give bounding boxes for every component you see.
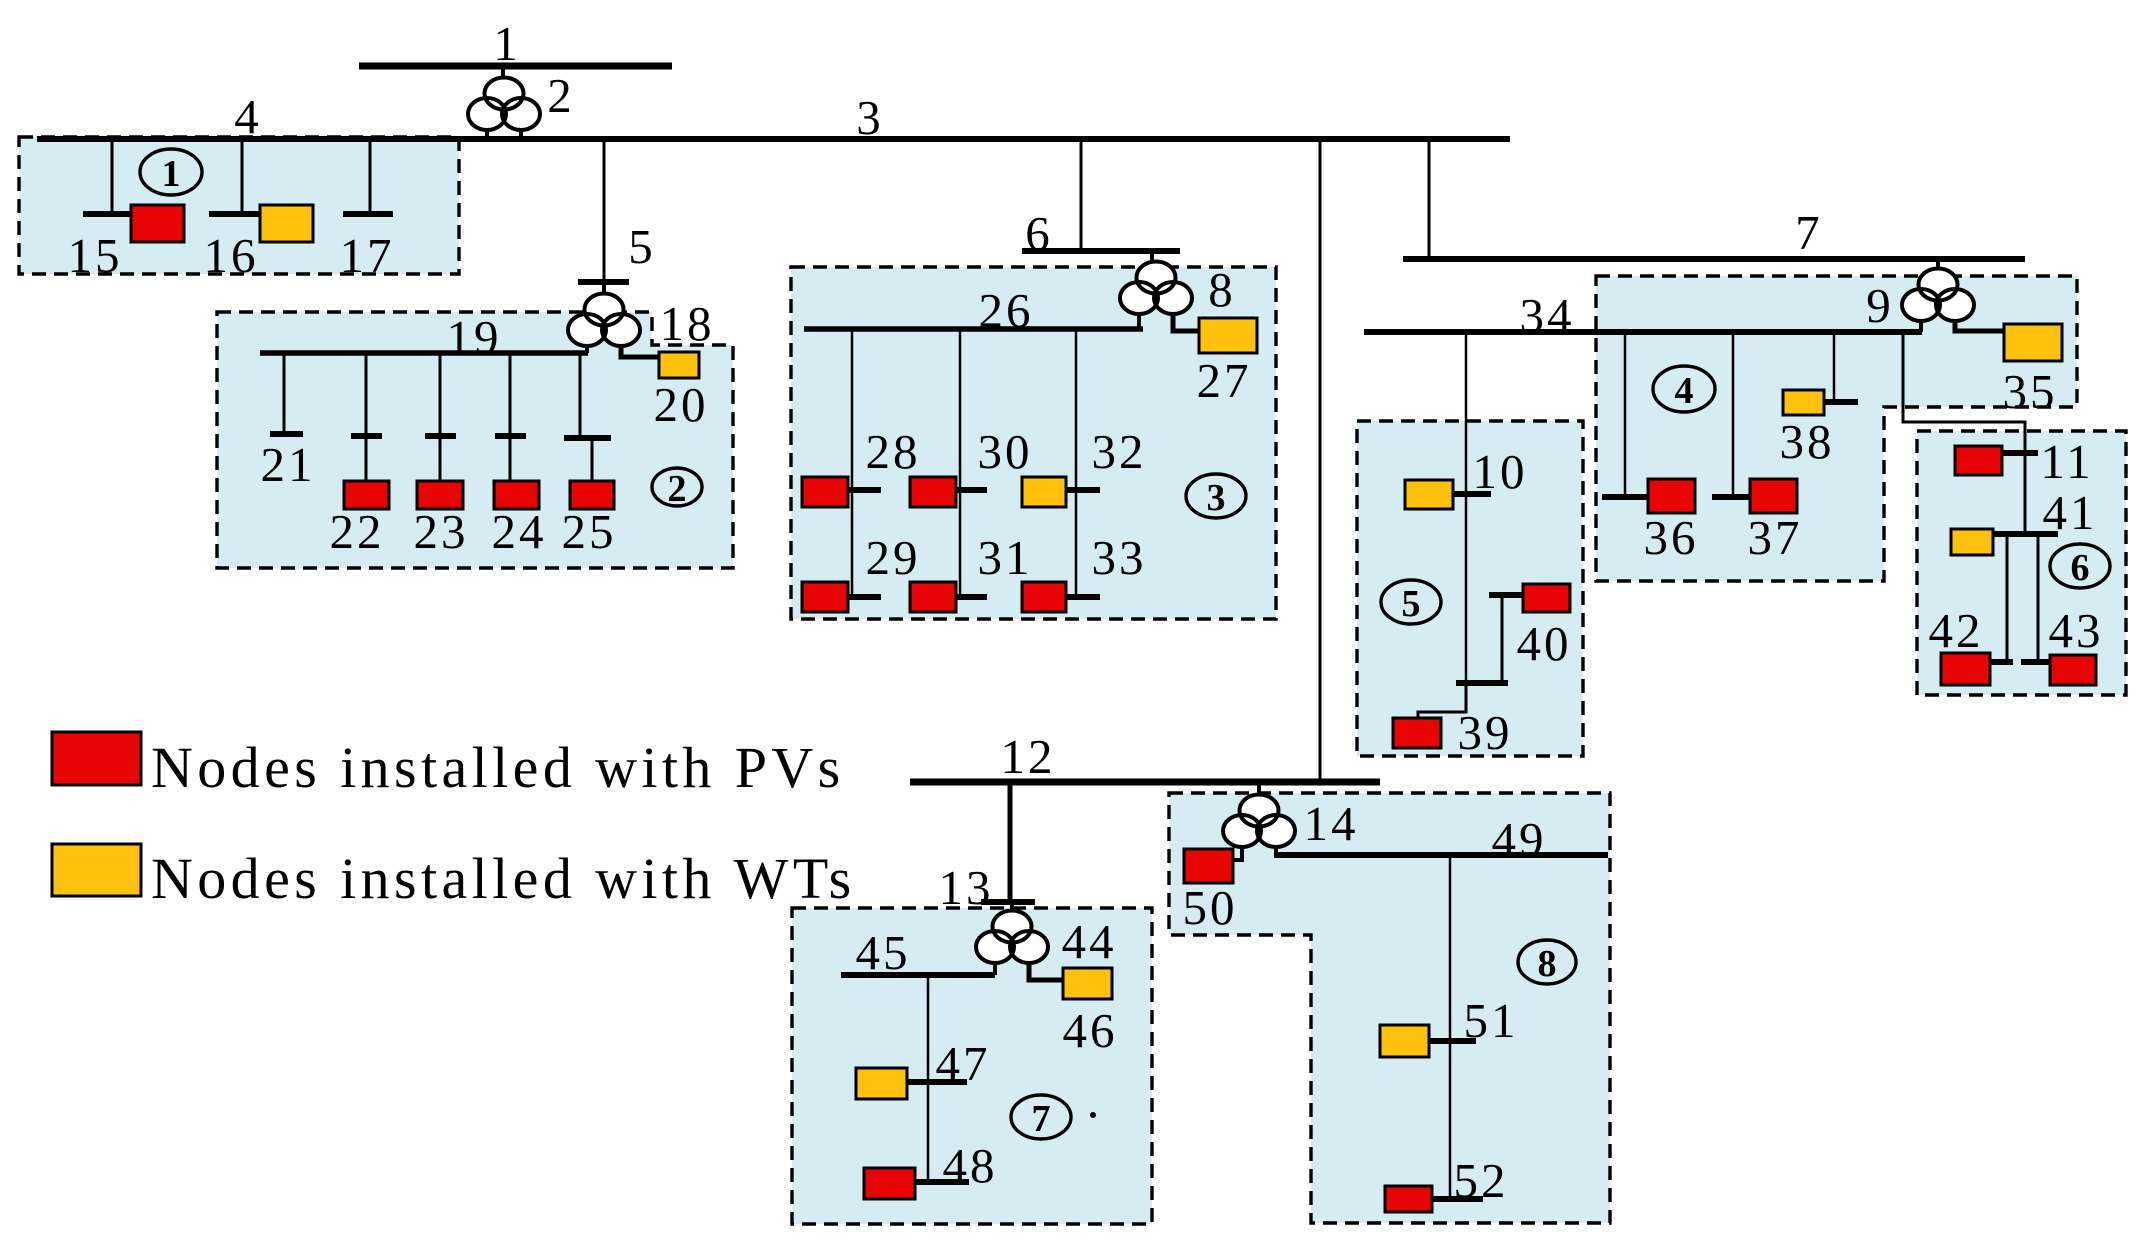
- svg-text:19: 19: [447, 310, 502, 365]
- svg-text:26: 26: [979, 283, 1034, 338]
- bus 12: [910, 779, 1380, 786]
- bus 45: [841, 972, 995, 978]
- wire long feeder bus3 to bus 12: [1319, 139, 1322, 782]
- wire bus12 to bar 13: [1008, 782, 1013, 902]
- svg-text:30: 30: [978, 424, 1033, 479]
- svg-text:2: 2: [547, 68, 575, 123]
- wire bus7 to transformer 9: [1936, 259, 1940, 270]
- wire bus12 to transformer 14: [1257, 782, 1261, 797]
- svg-text:49: 49: [1492, 812, 1547, 867]
- svg-text:43: 43: [2049, 603, 2104, 658]
- WT node 10: [1405, 480, 1453, 509]
- transformer 14: [1223, 795, 1295, 848]
- svg-text:32: 32: [1092, 424, 1147, 479]
- wire bus34 to region 6: [1903, 332, 2025, 534]
- zone box 2: [217, 312, 733, 568]
- svg-text:47: 47: [936, 1036, 991, 1091]
- svg-text:40: 40: [1517, 616, 1572, 671]
- wire feeder node 38: [1833, 332, 1836, 402]
- bar node 23: [425, 433, 456, 439]
- bar node 32: [1064, 487, 1100, 493]
- svg-text:3: 3: [856, 90, 884, 145]
- svg-text:20: 20: [654, 377, 709, 432]
- bar line 5: [578, 279, 629, 285]
- svg-text:6: 6: [2071, 547, 2090, 589]
- zone box 7: [792, 908, 1152, 1224]
- bar node 15: [83, 211, 131, 217]
- transformer 18: [568, 294, 640, 347]
- bar node 36: [1602, 494, 1648, 500]
- wire bus3 to bus 7: [1428, 139, 1431, 259]
- WT node 32: [1022, 477, 1066, 507]
- svg-text:23: 23: [414, 504, 469, 559]
- wire node 15: [111, 139, 114, 214]
- svg-text:31: 31: [978, 530, 1033, 585]
- svg-text:4: 4: [1675, 370, 1694, 412]
- transformer 2: [468, 78, 540, 131]
- bar node 47: [907, 1079, 967, 1085]
- wire feeder 28-29: [851, 329, 854, 597]
- transformer 9: [1902, 269, 1974, 322]
- svg-text:45: 45: [856, 925, 911, 980]
- legend WT square: [52, 844, 141, 896]
- svg-text:38: 38: [1780, 414, 1835, 469]
- svg-text:52: 52: [1454, 1153, 1509, 1208]
- svg-text:46: 46: [1063, 1003, 1118, 1058]
- TRANSFORMERS: [468, 78, 1974, 964]
- PV node 28: [802, 477, 848, 507]
- wire transformer 18 right leg to node 20: [621, 344, 660, 357]
- svg-text:18: 18: [660, 296, 715, 351]
- transformer 44: [976, 911, 1048, 964]
- bar node 52: [1432, 1196, 1483, 1202]
- zone box 4: [1596, 276, 2077, 581]
- bar node 48: [915, 1179, 969, 1185]
- wire bar13 to transformer 44: [1010, 902, 1014, 913]
- svg-text:1: 1: [162, 153, 181, 195]
- bus 3-4 main bus: [37, 136, 1510, 142]
- svg-text:25: 25: [562, 504, 617, 559]
- svg-text:12: 12: [1001, 729, 1056, 784]
- svg-text:15: 15: [68, 228, 123, 283]
- PV node 43: [2050, 655, 2096, 685]
- wire node 25: [580, 353, 592, 481]
- bar node 37: [1712, 494, 1750, 500]
- svg-text:17: 17: [340, 228, 395, 283]
- wire node 23: [439, 353, 442, 481]
- bus 26: [804, 326, 1143, 332]
- svg-text:10: 10: [1473, 444, 1528, 499]
- zone number 1: [140, 149, 202, 195]
- bus 6: [1022, 248, 1180, 254]
- WT node 35: [2004, 324, 2062, 361]
- bar node 25: [564, 435, 611, 441]
- PV node 42: [1941, 653, 1990, 685]
- bar node 22: [351, 433, 382, 439]
- NODE SQUARES: [52, 205, 2096, 1212]
- wire line 5: [603, 139, 606, 282]
- svg-text:5: 5: [1402, 583, 1421, 625]
- PV node 23: [417, 481, 463, 509]
- wire transformer 44 right leg to node 46: [1029, 961, 1063, 980]
- svg-text:9: 9: [1866, 278, 1894, 333]
- bus 34: [1364, 329, 1922, 335]
- svg-text:14: 14: [1304, 796, 1359, 851]
- wire node 16: [241, 139, 244, 214]
- svg-text:35: 35: [2003, 364, 2058, 419]
- svg-text:51: 51: [1464, 993, 1519, 1048]
- PV node 11: [1955, 446, 2002, 475]
- WT node 47: [856, 1068, 907, 1099]
- wire node 17: [369, 139, 372, 214]
- wire node 43 drop: [2037, 534, 2040, 662]
- wire transformer 2 legs: [487, 128, 521, 139]
- zone box 3: [791, 267, 1276, 619]
- svg-text:3: 3: [1207, 477, 1226, 519]
- wire bus3 to bus 6: [1080, 139, 1083, 251]
- legend PV square: [52, 732, 141, 785]
- bar node 16: [209, 211, 260, 217]
- bus 19: [260, 350, 588, 356]
- wire node 24: [509, 353, 512, 481]
- wire feeder 47-48: [927, 975, 930, 1182]
- svg-text:21: 21: [261, 437, 316, 492]
- svg-text:29: 29: [866, 530, 921, 585]
- WT node 20: [659, 352, 699, 378]
- wire bar to transformer 18: [602, 282, 606, 295]
- WT node 46: [1063, 968, 1112, 999]
- WT node 38: [1783, 390, 1824, 415]
- bar node 40 link: [1489, 592, 1523, 598]
- svg-text:8: 8: [1208, 262, 1236, 317]
- PV node 37: [1750, 479, 1797, 513]
- bar node 31: [954, 594, 987, 600]
- wire transformer 44 left leg to bus 45: [993, 961, 997, 975]
- wire bus6 to transformer 8: [1150, 251, 1154, 263]
- PV node 33: [1022, 582, 1066, 612]
- svg-text:8: 8: [1538, 943, 1557, 985]
- svg-text:44: 44: [1062, 914, 1117, 969]
- wire to node 39: [1418, 683, 1466, 718]
- wire feeder node 10 region 5: [1465, 332, 1468, 683]
- svg-text:27: 27: [1197, 353, 1252, 408]
- zone number 3: [1186, 474, 1246, 519]
- bar node 28: [846, 487, 881, 493]
- wire transformer 14 left leg to node 50: [1233, 845, 1242, 860]
- wire transformer 8 right leg to node 27: [1173, 312, 1199, 331]
- PV node 31: [910, 582, 956, 612]
- bus 49: [1274, 852, 1608, 858]
- bar node 42: [1990, 659, 2013, 665]
- WT node 16: [260, 205, 313, 242]
- PV node 15: [131, 205, 184, 242]
- PV node 36: [1648, 479, 1695, 513]
- wire node 21: [283, 353, 286, 434]
- svg-text:1: 1: [493, 16, 521, 71]
- wire transformer 9 right leg to node 35: [1955, 319, 2004, 331]
- svg-text:13: 13: [939, 860, 994, 915]
- PV node 52: [1385, 1186, 1432, 1212]
- bar node 33: [1064, 594, 1100, 600]
- svg-text:7: 7: [1032, 1098, 1051, 1140]
- zone number 5: [1381, 580, 1441, 625]
- zone number 2: [652, 468, 702, 510]
- zone box 8: [1169, 793, 1610, 1223]
- PV node 22: [344, 481, 389, 509]
- wire feeder 30-31: [959, 329, 962, 597]
- zone number 7: [1011, 1095, 1071, 1140]
- PV node 25: [570, 481, 614, 509]
- svg-text:28: 28: [866, 424, 921, 479]
- WT node 51: [1380, 1025, 1429, 1057]
- svg-text:33: 33: [1092, 530, 1147, 585]
- svg-text:16: 16: [204, 228, 259, 283]
- bar node 17: [343, 211, 393, 217]
- svg-text:48: 48: [943, 1138, 998, 1193]
- bar node 21: [270, 431, 303, 437]
- svg-text:2: 2: [668, 468, 687, 510]
- svg-text:42: 42: [1929, 603, 1984, 658]
- svg-text:11: 11: [2040, 434, 2093, 489]
- wire node 40 drop: [1489, 595, 1523, 683]
- bar node 29: [846, 594, 881, 600]
- bar node 24: [495, 433, 526, 439]
- svg-text:39: 39: [1458, 705, 1513, 760]
- svg-text:24: 24: [492, 504, 547, 559]
- bus 1: [359, 63, 672, 70]
- wire transformer 9 left leg to bus 34: [1919, 319, 1923, 332]
- PV node 30: [910, 477, 956, 507]
- wire feeder 32-33: [1075, 329, 1078, 597]
- bar node 43: [2021, 659, 2050, 665]
- wire node 42 drop: [2006, 534, 2009, 662]
- zone number 4: [1653, 366, 1715, 412]
- svg-text:41: 41: [2043, 485, 2098, 540]
- svg-text:22: 22: [330, 504, 385, 559]
- PV node 29: [802, 582, 848, 612]
- svg-text:36: 36: [1644, 510, 1699, 565]
- svg-text:5: 5: [628, 219, 656, 274]
- wire node 22: [365, 353, 368, 481]
- wire transformer 8 left leg to bus 26: [1137, 312, 1141, 329]
- bar node 41: [1993, 531, 2058, 537]
- stray dot: [1090, 1112, 1096, 1118]
- svg-text:50: 50: [1183, 880, 1238, 935]
- svg-text:37: 37: [1748, 510, 1803, 565]
- svg-text:Nodes installed with PVs: Nodes installed with PVs: [151, 735, 845, 800]
- svg-text:4: 4: [234, 89, 262, 144]
- svg-text:Nodes installed with WTs: Nodes installed with WTs: [151, 846, 856, 911]
- bar 13: [981, 899, 1035, 905]
- zone number 6: [2050, 544, 2110, 589]
- PV node 24: [494, 481, 539, 509]
- bar node 10: [1453, 491, 1491, 497]
- svg-text:34: 34: [1520, 288, 1575, 343]
- bar node 39 top: [1456, 680, 1508, 686]
- wire feeder 51-52: [1449, 855, 1452, 1199]
- bus 7: [1403, 256, 2025, 262]
- PV node 40: [1523, 584, 1570, 612]
- CIRCLED ZONE NUMBERS: [140, 149, 2110, 1140]
- transformer 8: [1120, 262, 1192, 315]
- bar node 11: [2002, 450, 2038, 456]
- wire bus1 to transformer 2: [501, 66, 505, 80]
- PV node 39: [1393, 718, 1441, 748]
- zone box 5: [1357, 421, 1583, 756]
- WT node 27: [1199, 318, 1257, 353]
- zone number 8: [1518, 940, 1576, 985]
- bar node 51: [1429, 1038, 1476, 1044]
- zone box 1: [19, 137, 459, 274]
- zone box 6: [1917, 431, 2126, 695]
- WT node 41: [1951, 529, 1993, 555]
- wire feeder node 36: [1624, 332, 1627, 497]
- wire transformer 18 left leg to bus 19: [585, 344, 589, 353]
- wire feeder node 37: [1732, 332, 1735, 497]
- PV node 48: [864, 1168, 915, 1199]
- svg-text:6: 6: [1025, 206, 1053, 261]
- bar node 38: [1824, 399, 1858, 405]
- svg-text:7: 7: [1795, 205, 1823, 260]
- PV node 50: [1184, 849, 1233, 883]
- wire transformer 14 right leg to bus 49: [1274, 845, 1278, 855]
- bar node 30: [954, 487, 987, 493]
